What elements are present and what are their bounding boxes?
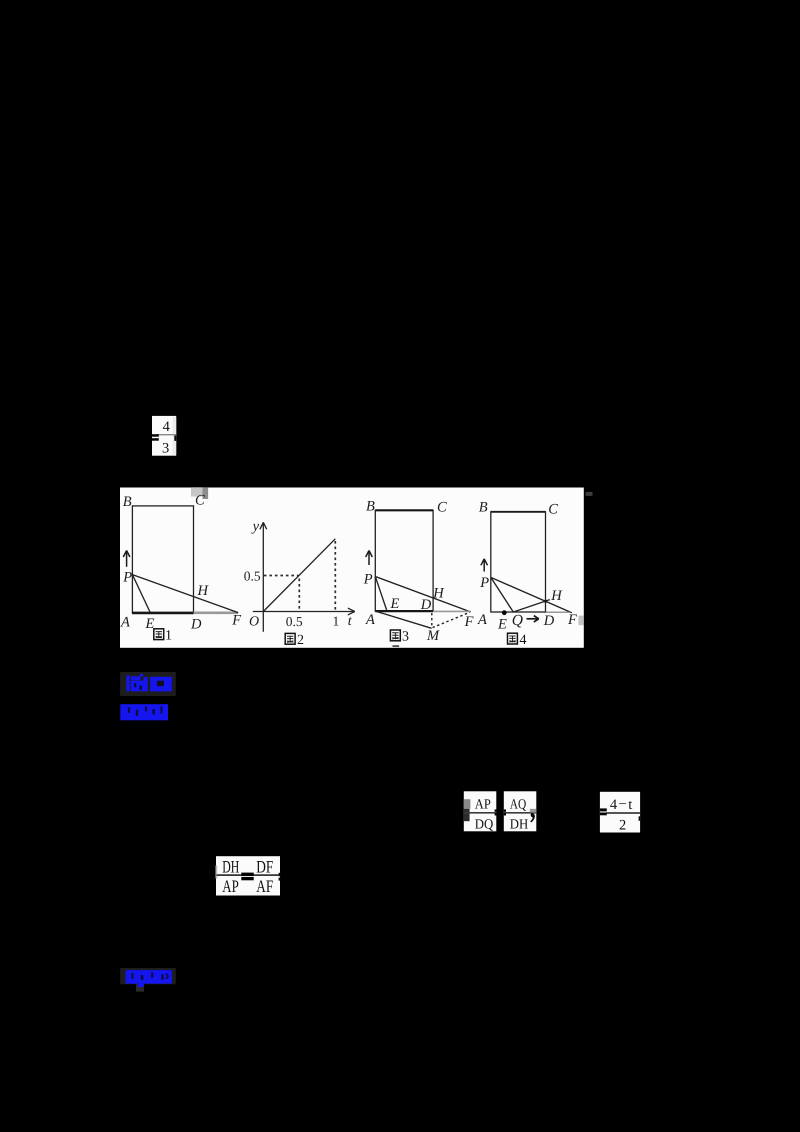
fig4 up arrow at P [481, 559, 488, 572]
fig1 gray segment D to F [194, 611, 239, 614]
fig3 caption 图3 [390, 630, 409, 647]
svg-text:H: H [197, 583, 210, 599]
fig4 point dot at E [502, 610, 507, 615]
svg-text:1: 1 [333, 614, 340, 629]
svg-text:B: B [366, 499, 375, 515]
fig3 dashed M to D [431, 613, 433, 628]
fig3 line A to M [375, 611, 431, 628]
formula box (4-t)/2 [600, 792, 640, 834]
svg-text:C: C [548, 502, 558, 518]
svg-text:3: 3 [162, 440, 169, 456]
svg-text:D: D [420, 597, 432, 613]
fig3 dashed M to F [433, 612, 470, 627]
svg-text:A: A [477, 612, 487, 628]
fig2 line y=t from O [263, 539, 335, 612]
scan smudge dark gray near C of fig1 [203, 487, 209, 499]
fig2 dashed horizontal at y=0.5 [264, 575, 299, 577]
svg-text:3: 3 [402, 630, 409, 645]
svg-text:AF: AF [256, 876, 273, 896]
label fenxi dark stroke gaps [128, 706, 163, 716]
svg-text:P: P [122, 570, 132, 586]
fig2 dashed vertical at t=0.5 [298, 579, 300, 611]
fig4 junction dot at H crossing [544, 600, 547, 603]
svg-text:F: F [231, 613, 241, 629]
label jieda blue text [126, 970, 172, 987]
label jieda background box [120, 968, 176, 984]
svg-text:DF: DF [256, 856, 273, 876]
label kaodian inner hole [157, 681, 164, 687]
fig1 bottom edge AD bold [132, 612, 194, 615]
svg-text:2: 2 [297, 633, 304, 648]
fig4 top edge BC bold [491, 511, 546, 513]
svg-text:B: B [123, 494, 132, 510]
label fenxi blue text [120, 704, 168, 720]
svg-text:D: D [543, 613, 555, 629]
fig4 line P to Q [491, 577, 514, 612]
svg-text:E: E [145, 616, 155, 632]
svg-text:0.5: 0.5 [244, 569, 261, 584]
fig3 line P to F [375, 577, 470, 612]
fig3 gray segment D to F [433, 610, 470, 612]
svg-text:−: − [619, 796, 627, 812]
svg-text:C: C [437, 500, 447, 516]
comma after AQ/DH [530, 813, 535, 823]
svg-text:4: 4 [520, 633, 527, 648]
fig1 line P to E [132, 575, 150, 613]
fig3 bottom edge AD bold [375, 610, 433, 612]
fig4 line P to F [491, 577, 572, 612]
svg-text:y: y [251, 519, 260, 535]
svg-text:F: F [464, 614, 474, 630]
svg-text:AP: AP [222, 876, 239, 896]
formula box DH/AP = DF/AF [216, 856, 281, 896]
fig2 caption 图2 [285, 633, 304, 648]
fig1 up arrow at P [123, 551, 130, 567]
fig3 line P to E [375, 577, 387, 612]
label jieda tab below [136, 984, 144, 991]
fig3 up arrow at P [366, 551, 373, 566]
formula box AP/DQ [464, 791, 497, 832]
label kaodian inner dark notches [134, 683, 142, 690]
svg-text:D: D [190, 617, 202, 633]
svg-text:Q: Q [512, 612, 523, 629]
svg-text:DH: DH [510, 818, 529, 833]
fig1 line P to F [132, 575, 238, 613]
svg-text:E: E [390, 596, 400, 612]
svg-text:DQ: DQ [475, 818, 494, 833]
scan smudge gray patch right of F in fig4 [579, 616, 584, 626]
svg-text:DH: DH [222, 856, 239, 876]
scan smudge light gray near C of fig1 [191, 487, 203, 496]
svg-text:P: P [479, 575, 489, 591]
svg-text:H: H [432, 586, 445, 602]
svg-text:AP: AP [475, 798, 491, 813]
svg-text:A: A [365, 612, 375, 628]
svg-text:AQ: AQ [510, 798, 527, 813]
fig3 rectangle ABCD [375, 510, 433, 611]
svg-text:C: C [195, 493, 205, 509]
svg-text:1: 1 [165, 628, 172, 643]
svg-text:O: O [249, 615, 259, 630]
formula image box =4/3 [152, 416, 176, 456]
svg-text:P: P [363, 571, 373, 587]
fig3 top edge BC bold [375, 509, 433, 511]
svg-text:H: H [550, 588, 563, 604]
label kaodian blue text [126, 673, 171, 691]
fig4 rectangle ABCD [491, 512, 546, 612]
fig4 caption 图4 [508, 633, 527, 648]
white figure panel [120, 488, 584, 648]
svg-text:t: t [628, 797, 632, 813]
svg-text:2: 2 [619, 817, 626, 833]
svg-text:4: 4 [610, 797, 618, 813]
scan smudge outside panel top right [586, 492, 593, 496]
svg-text:0.5: 0.5 [286, 614, 303, 629]
label kaodian background box [120, 672, 176, 696]
fig2 y axis [262, 524, 264, 632]
svg-text:M: M [426, 628, 440, 644]
svg-text:B: B [479, 500, 488, 516]
label jieda dark stroke gaps [131, 973, 169, 980]
fig4 line Q to H [513, 600, 550, 612]
fig2 t axis [253, 611, 354, 613]
fig1 rectangle ABCD [132, 506, 193, 613]
svg-text:A: A [120, 614, 130, 630]
formula box AQ/DH [504, 791, 537, 832]
fig4 gray segment D to F [546, 611, 571, 613]
svg-text:E: E [497, 617, 507, 633]
fig1 caption 图1 [154, 628, 172, 643]
fig2 dashed vertical at t=1 [334, 541, 336, 611]
svg-text:4: 4 [163, 419, 171, 435]
svg-text:F: F [567, 612, 577, 628]
fig4 moving arrow right of Q [527, 616, 539, 622]
